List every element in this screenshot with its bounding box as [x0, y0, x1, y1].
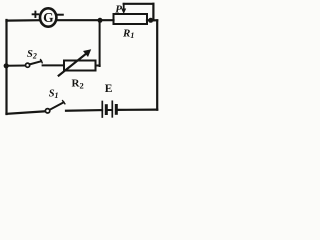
- wire right vertical side: [156, 20, 158, 109]
- svg-text:E: E: [105, 83, 113, 95]
- wire R2 branch vertical up to node A: [99, 20, 101, 66]
- wire top-left horizontal (left corner to galvanometer): [7, 19, 41, 22]
- switch S1 blade: [50, 102, 64, 109]
- wire R1 right terminal to node B: [147, 19, 151, 21]
- svg-text:S2: S2: [27, 49, 37, 61]
- switch S2 pivot circle: [26, 63, 30, 67]
- wire bottom-left horizontal to switch S1: [7, 111, 45, 114]
- resistor R1 box: [114, 14, 148, 24]
- svg-text:R1: R1: [122, 28, 134, 41]
- battery E cell2 long plate: [111, 101, 113, 117]
- rheostat R2 box: [64, 61, 96, 71]
- battery E cell1 short plate: [105, 106, 108, 114]
- wire S2 to R2 left terminal: [43, 64, 64, 66]
- junction dot on left wire (S2 branch): [4, 63, 9, 68]
- wire R2 right terminal to corner: [96, 65, 100, 67]
- switch S1 blade tip tick: [63, 101, 65, 104]
- wire wiper loop right vertical down to node B: [152, 4, 154, 21]
- wire left wire to switch S2 pivot: [7, 65, 26, 67]
- junction node B dot: [148, 18, 153, 23]
- wire wiper loop top: [124, 3, 154, 5]
- wire left vertical side: [5, 20, 7, 114]
- wiper arrow of R1: [123, 4, 125, 10]
- wire galvanometer to junction A: [56, 19, 100, 21]
- polarity label -: [58, 14, 63, 16]
- switch S2 blade tip tick: [41, 60, 43, 63]
- battery E cell2 short plate: [115, 106, 118, 114]
- svg-text:S1: S1: [49, 89, 59, 101]
- rheostat R2 diagonal arrow: [59, 53, 87, 76]
- junction node A dot (top wire to R2 branch): [98, 18, 103, 23]
- svg-text:R2: R2: [72, 78, 84, 91]
- wire junction A to R1 left terminal: [100, 19, 114, 21]
- galvanometer U1 circle: [40, 8, 56, 26]
- polarity label +: [33, 13, 39, 15]
- wire between battery cells: [107, 109, 113, 111]
- wire S1 to battery: [66, 109, 102, 112]
- switch S1 pivot circle: [45, 109, 49, 113]
- switch S2 blade: [30, 61, 42, 64]
- battery E cell1 long plate: [101, 102, 103, 118]
- wire battery to right corner: [117, 108, 158, 111]
- svg-text:P: P: [115, 3, 122, 15]
- wire node B to right corner: [151, 19, 158, 21]
- svg-text:G: G: [43, 10, 54, 25]
